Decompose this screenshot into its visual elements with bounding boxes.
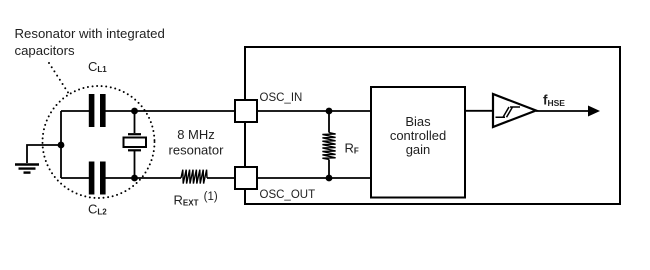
wire crystal bottom xyxy=(134,151,136,178)
svg-text:8 MHz: 8 MHz xyxy=(177,127,215,142)
pin OSC_IN xyxy=(235,100,257,122)
resistor REXT xyxy=(181,170,207,184)
op-amp U1 (Schmitt buffer) xyxy=(493,94,536,127)
svg-text:Bias: Bias xyxy=(405,114,431,129)
wire OSC_OUT pin to bias block xyxy=(257,177,371,179)
arrowhead fHSE output xyxy=(588,106,600,117)
svg-text:OSC_OUT: OSC_OUT xyxy=(260,189,316,201)
svg-text:REXT (1): REXT (1) xyxy=(174,191,218,208)
wire OSC_IN pin to bias block xyxy=(257,110,371,112)
svg-text:gain: gain xyxy=(406,142,431,157)
wire RF top lead xyxy=(328,111,330,133)
resistor RF xyxy=(322,133,335,160)
capacitor CL1 xyxy=(89,94,106,127)
svg-text:CL1: CL1 xyxy=(88,59,107,74)
svg-text:CL2: CL2 xyxy=(88,202,107,217)
wire RF bottom lead xyxy=(328,160,330,179)
capacitor CL2 xyxy=(89,162,106,195)
wire REXT to OSC_OUT pin xyxy=(207,177,236,179)
crystal resonator xyxy=(124,134,147,150)
junction RF bottom xyxy=(326,175,333,182)
wire left vertical xyxy=(60,111,62,178)
junction crystal bottom node xyxy=(131,175,138,182)
bias controlled gain block xyxy=(371,87,465,198)
svg-text:resonator: resonator xyxy=(169,143,225,158)
svg-text:HSE: HSE xyxy=(548,98,566,108)
wire bias block to amplifier xyxy=(465,110,493,112)
junction crystal top node xyxy=(131,108,138,115)
pin OSC_OUT xyxy=(235,167,257,189)
wire OSC_IN branch (top) xyxy=(61,110,236,112)
wire amplifier output xyxy=(536,110,589,112)
junction ground node xyxy=(58,142,65,149)
MCU outline xyxy=(245,47,620,204)
annotation: resonator note xyxy=(15,26,165,58)
svg-text:capacitors: capacitors xyxy=(15,43,76,58)
svg-text:OSC_IN: OSC_IN xyxy=(260,92,303,104)
wire crystal top xyxy=(134,111,136,133)
junction RF top xyxy=(326,108,333,115)
svg-text:Resonator with integrated: Resonator with integrated xyxy=(15,26,165,41)
svg-text:RF: RF xyxy=(345,141,359,156)
wire ground branch xyxy=(27,145,61,163)
svg-text:controlled: controlled xyxy=(390,128,446,143)
leader line (dotted) xyxy=(49,63,69,94)
resonator boundary (dotted circle) xyxy=(43,86,155,198)
wire OSC_OUT branch (bottom left) xyxy=(61,177,181,179)
label bias controlled gain xyxy=(390,114,446,157)
ground xyxy=(15,165,39,173)
label 8 MHz resonator xyxy=(169,127,225,158)
